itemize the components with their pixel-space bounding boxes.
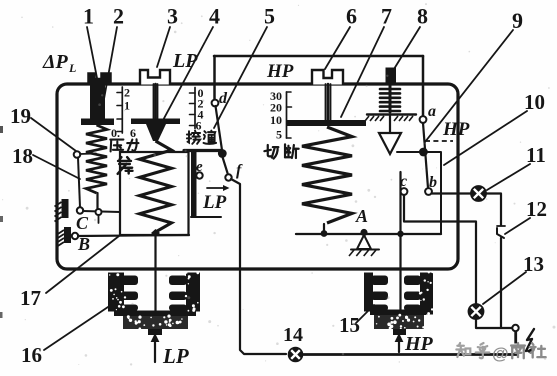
text qie xyxy=(264,145,278,159)
svg-text:@: @ xyxy=(492,344,509,363)
mech link lever to contact xyxy=(427,152,441,233)
lever pivot blob xyxy=(218,149,227,158)
pin on lever C xyxy=(96,209,102,215)
svg-text:ΔP: ΔP xyxy=(42,51,69,73)
arrow LP inlet xyxy=(154,340,156,362)
spring range LP xyxy=(140,141,172,232)
screw head dPL xyxy=(88,73,111,84)
contact b xyxy=(425,188,432,195)
svg-text:17: 17 xyxy=(20,286,41,310)
spring seat LP xyxy=(131,119,180,125)
svg-text:6: 6 xyxy=(346,4,357,29)
contact a xyxy=(420,116,427,123)
spring frame xyxy=(120,152,189,235)
lever a-b xyxy=(423,123,428,188)
terminal 4 xyxy=(512,325,518,331)
screw spring 8 xyxy=(380,88,400,91)
spring differential xyxy=(86,125,107,193)
svg-text:19: 19 xyxy=(10,104,31,128)
lever C xyxy=(83,211,120,212)
svg-text:HP: HP xyxy=(442,119,470,140)
pivot B xyxy=(72,233,78,239)
screw shank LP xyxy=(153,84,155,119)
screw shank HP xyxy=(325,84,327,120)
text ya xyxy=(110,140,123,152)
scan noise xyxy=(78,364,79,365)
spring cutout HP xyxy=(302,127,352,223)
wire drop to contact d xyxy=(213,56,216,101)
screw shank dPL xyxy=(90,84,105,119)
screw head LP xyxy=(140,70,170,85)
lever A xyxy=(296,233,441,235)
watermark zhihu xyxy=(456,343,470,357)
svg-text:2: 2 xyxy=(113,4,124,29)
lever B main xyxy=(78,235,189,236)
svg-text:c: c xyxy=(400,173,407,190)
cone 8 xyxy=(379,133,401,154)
link bar xyxy=(78,158,80,208)
wire c to lamp13 xyxy=(404,195,476,303)
svg-text:HP: HP xyxy=(266,61,294,82)
wire drop to contact a xyxy=(422,56,425,116)
link cone to blob xyxy=(397,151,419,153)
switch 12 xyxy=(497,225,505,227)
contact post xyxy=(191,152,197,216)
spring anchor HP xyxy=(323,224,325,233)
text tong xyxy=(204,131,217,144)
svg-text:10: 10 xyxy=(270,113,282,127)
svg-text:15: 15 xyxy=(339,313,360,337)
screw head 8 xyxy=(386,68,397,85)
lever blob ab xyxy=(419,148,428,157)
edge marks xyxy=(0,126,3,133)
svg-text:7: 7 xyxy=(381,4,392,29)
link pin 19 xyxy=(74,151,81,158)
svg-text:6: 6 xyxy=(196,119,202,133)
scale line HP xyxy=(286,92,288,138)
contact d xyxy=(212,100,219,107)
svg-text:LP: LP xyxy=(202,192,227,213)
push rod to contact c xyxy=(399,172,401,233)
bellows LP xyxy=(108,273,124,312)
svg-text:5: 5 xyxy=(276,128,282,142)
rod to HP bellows xyxy=(399,235,401,314)
rod below diff spring xyxy=(96,193,98,211)
svg-text:B: B xyxy=(77,234,90,254)
svg-text:16: 16 xyxy=(21,343,42,367)
spring seat cone LP xyxy=(146,124,166,141)
contact e xyxy=(196,172,202,178)
wire top bus xyxy=(214,55,423,58)
power arrow xyxy=(526,329,534,351)
svg-text:1: 1 xyxy=(83,4,94,29)
pivot wall B xyxy=(64,227,71,243)
mount plate 8 xyxy=(367,113,416,115)
svg-text:5: 5 xyxy=(264,4,275,29)
svg-text:L: L xyxy=(68,61,76,75)
rod to LP bellows xyxy=(154,235,156,317)
text duan xyxy=(285,144,299,158)
text cha xyxy=(118,157,133,174)
svg-text:6: 6 xyxy=(130,126,136,140)
contact bracket top xyxy=(184,149,222,152)
svg-text:e: e xyxy=(196,159,203,175)
wire switch down xyxy=(500,238,502,328)
contact f xyxy=(225,174,231,180)
spring anchor LP xyxy=(151,229,160,237)
svg-text:0.: 0. xyxy=(111,126,120,140)
controller case xyxy=(57,84,458,269)
svg-text:HP: HP xyxy=(404,333,434,355)
wire b to lamp11 xyxy=(432,192,471,194)
svg-text:b: b xyxy=(429,174,437,191)
svg-text:9: 9 xyxy=(512,8,523,33)
svg-text:A: A xyxy=(355,206,368,226)
svg-text:4: 4 xyxy=(209,4,220,29)
arrow LP action xyxy=(207,187,225,189)
svg-text:14: 14 xyxy=(283,324,303,346)
wire lamp11 to switch xyxy=(486,194,501,226)
wire f to lamp14 xyxy=(231,179,286,354)
scale line dPL xyxy=(121,87,123,133)
pivot wall C xyxy=(62,199,69,218)
lamp 14 xyxy=(289,348,303,362)
svg-text:18: 18 xyxy=(12,144,33,168)
lever d-f xyxy=(216,106,223,150)
pivot C xyxy=(77,207,83,213)
arrow HP inlet xyxy=(398,341,400,352)
svg-text:C: C xyxy=(76,213,89,233)
svg-text:LP: LP xyxy=(162,344,189,368)
svg-text:8: 8 xyxy=(417,4,428,29)
text li xyxy=(127,139,138,151)
screw head HP xyxy=(312,70,343,85)
contact c xyxy=(401,188,408,195)
svg-text:a: a xyxy=(428,103,436,120)
pivot A dot xyxy=(360,229,367,236)
lamp 11 xyxy=(471,186,486,201)
svg-text:12: 12 xyxy=(526,197,547,221)
svg-text:2: 2 xyxy=(124,86,130,100)
dashed HP line xyxy=(425,140,453,142)
scale line LP xyxy=(194,88,196,129)
lamp 13 xyxy=(468,304,483,319)
spring seat dPL xyxy=(81,119,114,126)
pivot A support xyxy=(357,235,371,249)
wire lamp13 to terminal xyxy=(476,319,512,328)
wire bottom xyxy=(303,353,517,356)
text jie xyxy=(187,131,200,144)
svg-text:3: 3 xyxy=(167,4,178,29)
spring seat HP xyxy=(287,120,366,126)
rod junction xyxy=(397,231,403,237)
bellows HP xyxy=(364,273,373,312)
screw tip shaft 8 xyxy=(389,116,391,133)
contact bracket bottom xyxy=(191,216,221,218)
svg-text:11: 11 xyxy=(526,143,546,167)
